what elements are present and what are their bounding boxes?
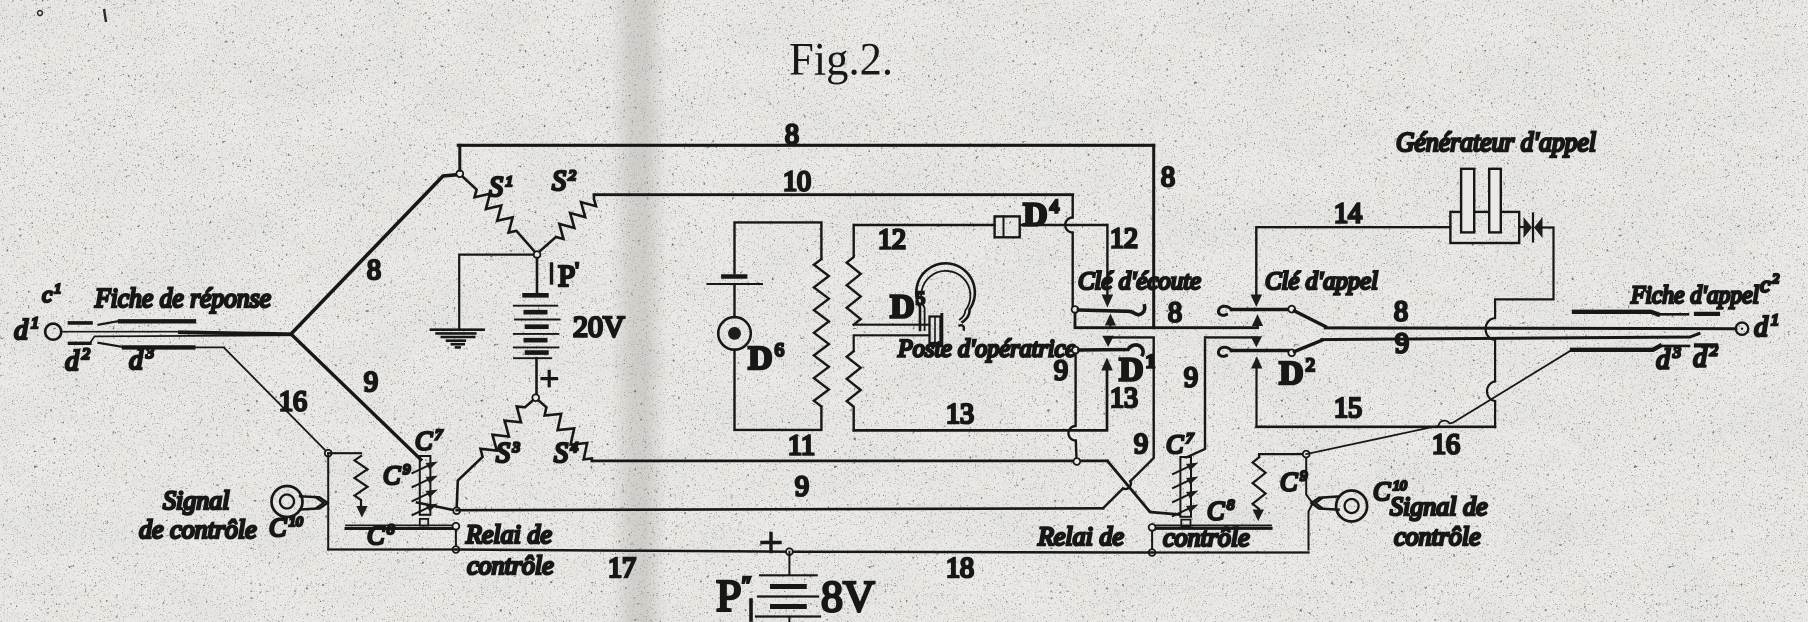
svg-text:11: 11 — [788, 431, 815, 462]
label P2 bar — [749, 600, 753, 620]
label 20V — [573, 311, 625, 344]
generator buzzer — [1519, 214, 1542, 242]
key D1 lever — [1072, 345, 1143, 355]
wire tip (8) thin — [62, 331, 182, 333]
label D2 — [1279, 355, 1315, 392]
wire 9 to D2 down arrow — [1205, 336, 1262, 347]
label C10 right — [1373, 477, 1407, 506]
svg-text:12: 12 — [878, 225, 906, 256]
svg-text:contrôle: contrôle — [467, 551, 554, 580]
svg-text:Signal: Signal — [163, 486, 229, 515]
label d2 left — [65, 346, 90, 377]
label C9 right — [1280, 468, 1308, 497]
label d3 right — [1656, 345, 1681, 376]
label S4 — [554, 438, 579, 469]
node bridge bottom — [534, 251, 541, 258]
node S3 S4 — [532, 394, 539, 401]
label D6 — [748, 340, 784, 377]
svg-text:14: 14 — [1334, 199, 1362, 230]
label 12 right — [1110, 224, 1138, 255]
wire d3 to 16 — [193, 346, 224, 348]
key ecoute lever — [1072, 306, 1145, 315]
label 9 under 13 — [1134, 429, 1148, 460]
svg-text:Signal de: Signal de — [1390, 492, 1488, 521]
label 12 left — [878, 225, 906, 256]
resistor C9 left — [355, 456, 368, 518]
label d1 left — [14, 315, 39, 346]
label Signal de right — [1390, 492, 1488, 521]
armature left relay — [417, 503, 457, 511]
key appel up arrow — [1252, 314, 1263, 328]
label 13 right — [1110, 383, 1138, 414]
battery loop top wire — [735, 222, 822, 273]
wire 8 diagonal from plug — [292, 175, 460, 334]
hop arc on 9 wire — [1123, 481, 1131, 489]
label 18 — [946, 553, 974, 584]
resistor S4 — [538, 400, 592, 461]
svg-text:9: 9 — [1395, 329, 1409, 360]
svg-text:9: 9 — [1184, 363, 1198, 394]
svg-text:8V: 8V — [821, 572, 875, 621]
svg-text:Relai de: Relai de — [465, 520, 552, 549]
battery cell in loop — [708, 277, 763, 285]
wire 9 right — [1322, 334, 1699, 340]
wire C9 top link — [1259, 454, 1306, 457]
wire node to lamp right — [1306, 458, 1312, 550]
label Cle d'ecoute — [1078, 268, 1201, 295]
jack D6 — [718, 317, 751, 350]
label d1 right — [1754, 312, 1779, 343]
label 13 left — [946, 399, 974, 430]
label Fiche de reponse — [94, 283, 271, 313]
label c2 — [1760, 272, 1779, 297]
svg-text:9: 9 — [795, 472, 809, 503]
contact c1 dash — [69, 321, 91, 325]
svg-text:Relai de: Relai de — [1037, 522, 1124, 551]
svg-text:contrôle: contrôle — [1394, 522, 1481, 551]
node C8 right bottom — [1149, 549, 1156, 556]
label D1 — [1119, 352, 1155, 389]
wire cell to D6 — [733, 286, 735, 318]
svg-text:16: 16 — [1432, 430, 1460, 461]
resistor S3 — [457, 400, 533, 507]
label S2 — [552, 166, 577, 197]
key D1 down arrow wire — [1102, 336, 1114, 347]
label C7 right — [1166, 430, 1195, 459]
wire ring (9) thin — [90, 335, 291, 343]
svg-text:8: 8 — [1168, 298, 1182, 329]
svg-text:Poste d'opératrice: Poste d'opératrice — [897, 336, 1076, 363]
svg-text:8: 8 — [367, 255, 381, 286]
svg-text:Générateur d'appel: Générateur d'appel — [1396, 127, 1596, 157]
label controle right relay — [1163, 523, 1250, 552]
battery P' 20V — [514, 295, 560, 358]
relay D4 — [995, 216, 1020, 237]
label 8 appel right — [1394, 297, 1408, 328]
transformer secondary upper — [847, 225, 861, 325]
wire tap to headset — [854, 325, 930, 352]
label controle right lamp — [1394, 522, 1481, 551]
label S1 — [489, 172, 513, 203]
label 8 right vertical — [1161, 162, 1175, 193]
label 8V — [821, 572, 875, 621]
transformer secondary lower — [847, 351, 861, 430]
headset D5 — [916, 263, 975, 345]
svg-text:Fiche de réponse: Fiche de réponse — [94, 283, 271, 313]
svg-text:13: 13 — [946, 399, 974, 430]
wire battery to + node — [535, 358, 538, 394]
label controle left relay — [467, 551, 554, 580]
svg-text:9: 9 — [1134, 429, 1148, 460]
label Generateur d'appel — [1396, 127, 1596, 157]
label Signal left — [163, 486, 229, 515]
label 9 above right relay — [1184, 363, 1198, 394]
node C8 left top — [453, 523, 460, 530]
label c1 — [42, 282, 61, 307]
label 9 long wire — [795, 472, 809, 503]
contact d3 riser — [99, 343, 125, 347]
stray mark top-left — [104, 9, 106, 22]
wire C8 right vertical — [1151, 531, 1153, 549]
wire 16 diagonal left — [224, 348, 328, 453]
key appel fixed hook — [1218, 306, 1231, 315]
wire bus 17 18 — [456, 550, 1152, 553]
label plus P' — [542, 371, 557, 385]
wire 16 right diagonal — [1306, 350, 1572, 454]
svg-text:contrôle: contrôle — [1163, 523, 1250, 552]
key ecoute up arrow — [1105, 314, 1116, 328]
label Relai de left — [465, 520, 552, 549]
svg-text:9: 9 — [1054, 356, 1068, 387]
transformer primary coil — [814, 259, 829, 407]
label 17 — [608, 553, 636, 584]
wire node to C9 left — [328, 452, 361, 454]
contact c2 bar — [1574, 312, 1688, 315]
wire to ground — [459, 255, 533, 329]
label D4 — [1023, 197, 1060, 234]
label Cle d'appel — [1265, 268, 1378, 295]
wire 8 right vertical — [1152, 145, 1155, 327]
label C10 left — [269, 513, 303, 542]
relay coil C7 left — [413, 456, 439, 526]
label C8 right — [1207, 497, 1235, 526]
label 16 right — [1432, 430, 1460, 461]
wire 9 diagonal from plug — [293, 336, 421, 460]
wire D1 pivot drop with hop — [1068, 354, 1076, 459]
contact d3 bar right — [1572, 346, 1689, 350]
svg-text:15: 15 — [1334, 393, 1362, 424]
label P' — [558, 258, 579, 293]
svg-text:8: 8 — [1394, 297, 1408, 328]
wire bus left segment — [328, 548, 456, 550]
label 9 appel right — [1395, 329, 1409, 360]
wire 9 long — [457, 508, 1103, 510]
wire 12 horizontal — [854, 224, 1108, 226]
label C7 left — [415, 427, 444, 456]
node top-left junction — [456, 170, 463, 177]
node C8 left bottom — [453, 546, 460, 553]
generator box — [1450, 212, 1519, 243]
label d2 right — [1693, 343, 1718, 374]
node battery tap — [786, 548, 793, 555]
svg-text:Clé d'appel: Clé d'appel — [1265, 268, 1378, 295]
label 15 — [1334, 393, 1362, 424]
svg-text:16: 16 — [279, 387, 307, 418]
lamp C10 left — [272, 486, 328, 517]
lamp C10 right — [1312, 491, 1368, 522]
wire bridge node to battery P' — [536, 258, 539, 293]
contact d3 bar — [124, 345, 193, 349]
svg-text:12: 12 — [1110, 224, 1138, 255]
key appel lever — [1232, 306, 1326, 327]
svg-text:Fiche d'appel: Fiche d'appel — [1630, 282, 1759, 309]
plug tip terminal d1 right — [1736, 323, 1748, 335]
label 8 top — [785, 120, 799, 151]
label Poste d'operatrice — [897, 336, 1076, 363]
wire D6 to loop bottom — [735, 350, 822, 430]
contact c2 dash — [1696, 312, 1718, 316]
label 10 — [783, 167, 811, 198]
wire 12 drop with arrow — [1102, 225, 1114, 308]
relay coil C7 right — [1173, 457, 1199, 526]
wire 10 — [594, 193, 1073, 196]
battery P2 8V — [756, 575, 820, 622]
label de controle left — [139, 515, 257, 544]
generator prong 1 — [1461, 169, 1474, 233]
wire 14 — [1251, 227, 1451, 307]
wire node to top bus — [458, 145, 461, 170]
wire tip (8) thick — [180, 332, 291, 334]
label 11 — [788, 431, 815, 462]
svg-text:9: 9 — [364, 367, 378, 398]
contact c1 bar — [120, 319, 194, 323]
label D5 — [890, 289, 925, 326]
label C8 left — [367, 521, 395, 550]
wire 10 drop with hop — [1065, 195, 1072, 306]
svg-text:8: 8 — [785, 120, 799, 151]
label Fiche d'appel — [1630, 282, 1759, 309]
contact bar C8 left — [346, 525, 454, 528]
wire 9 to D1 back contact — [1103, 337, 1154, 508]
resistor S2 — [539, 195, 596, 253]
wire C8 left vertical — [455, 530, 457, 547]
wire 8 top bus — [458, 144, 1153, 147]
svg-text:Fig.2.: Fig.2. — [789, 34, 893, 86]
label P' bar — [550, 264, 553, 283]
wire 9 vertical to right relay coil — [1187, 340, 1206, 457]
node 16 left — [325, 450, 332, 457]
label C9 left — [383, 461, 411, 490]
wire left vertical node to bus — [327, 453, 329, 549]
resistor S1 — [463, 177, 536, 253]
node 9 left relay — [453, 507, 460, 514]
contact d2 dash right — [1696, 343, 1716, 347]
page fold shadow band — [611, 0, 667, 622]
label P2 — [716, 570, 752, 621]
node 16 right — [1303, 451, 1310, 458]
contact d2 dash — [69, 342, 90, 345]
wire 15 with up arrow to D2 — [1251, 356, 1495, 427]
svg-text:17: 17 — [608, 553, 636, 584]
label 9 diagonal — [364, 367, 378, 398]
label plus P2 — [762, 534, 780, 552]
label S3 — [496, 438, 520, 469]
wire battery P2 — [788, 552, 790, 574]
label 16 left — [279, 387, 307, 418]
svg-text:10: 10 — [783, 167, 811, 198]
key D2 fixed hook — [1218, 347, 1231, 356]
armature right relay — [1108, 461, 1180, 515]
key D2 lever — [1232, 340, 1322, 356]
label 9 left of D1 — [1054, 356, 1068, 387]
svg-text:20V: 20V — [573, 311, 625, 344]
stray dot top-left — [38, 11, 43, 16]
wire 11 — [592, 459, 1108, 462]
wire 8 right — [1325, 326, 1736, 330]
label 8 diagonal — [367, 255, 381, 286]
svg-text:8: 8 — [1161, 162, 1175, 193]
contact bar C8 right — [1153, 525, 1271, 528]
node C8 right top — [1149, 524, 1156, 531]
wire 13 — [854, 358, 1113, 431]
generator prong 2 — [1489, 169, 1501, 233]
label d3 left — [129, 345, 154, 376]
node on wire 11 — [1073, 458, 1080, 465]
wire 8 middle — [1075, 313, 1258, 328]
contact c1 riser — [99, 321, 120, 325]
svg-text:Clé d'écoute: Clé d'écoute — [1078, 268, 1201, 295]
label 14 — [1334, 199, 1362, 230]
plug tip terminal d1 (circle) — [45, 324, 61, 340]
generator return wire — [1486, 228, 1554, 427]
wire bus right segment — [1152, 551, 1309, 553]
svg-text:18: 18 — [946, 553, 974, 584]
label Relai de right — [1037, 522, 1124, 551]
label 8 middle — [1168, 298, 1182, 329]
resistor C9 right — [1253, 457, 1266, 521]
ground — [431, 330, 484, 348]
svg-text:de contrôle: de contrôle — [139, 515, 257, 544]
